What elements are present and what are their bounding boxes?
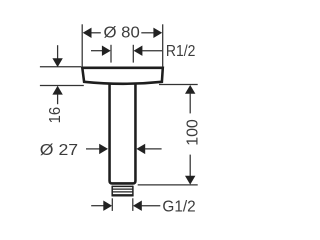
dim Ø27 right leader <box>145 148 162 150</box>
flange (ceiling escutcheon) outline <box>82 68 163 84</box>
dim R1/2 right leader <box>142 50 162 52</box>
dim Ø80 right extension line <box>162 24 164 67</box>
G1/2 thread right side <box>132 186 134 197</box>
G1/2 thread hatch line 2 <box>112 191 133 193</box>
dim G1/2 right leader <box>141 205 160 207</box>
dim Ø27 left leader <box>86 148 100 150</box>
dim R1/2 left leader <box>91 50 102 52</box>
G1/2 thread block top line <box>112 185 133 187</box>
dim 16 upper dimension line <box>57 45 59 58</box>
G1/2 thread hatch line 1 <box>112 188 133 190</box>
svg-text:Ø 27: Ø 27 <box>40 142 78 159</box>
dim R1/2 right extension line <box>132 45 134 63</box>
dim Ø80 left arrow <box>83 28 92 38</box>
dim 100 upper dimension line <box>189 93 191 113</box>
dim 100 down arrow <box>185 176 195 185</box>
svg-text:G1/2: G1/2 <box>162 198 195 215</box>
dim G1/2 left arrow <box>103 201 112 211</box>
dim Ø27 right arrow <box>136 144 145 154</box>
dim 16 lower dimension line <box>57 94 59 104</box>
dim G1/2 right extension line <box>132 198 134 211</box>
dim 16 up arrow <box>52 86 62 95</box>
dim 100 up arrow <box>185 85 195 94</box>
dim Ø80 dimension line right segment <box>141 32 154 34</box>
dim 16 down arrow <box>52 58 62 67</box>
dim R1/2 right arrow <box>134 46 143 56</box>
dim Ø80 right arrow <box>153 28 162 38</box>
G1/2 thread left side <box>111 186 113 197</box>
shower arm tube body <box>110 84 136 184</box>
dim R1/2 left arrow <box>102 46 111 56</box>
dim 16 bottom extension line <box>40 85 84 87</box>
dim G1/2 right arrow <box>133 201 142 211</box>
dim Ø80 dimension line left segment <box>91 32 101 34</box>
dim 100 lower dimension line <box>189 155 191 177</box>
dim G1/2 left extension line <box>111 198 113 211</box>
dim Ø27 left arrow <box>99 144 108 154</box>
dim 100 bottom extension line <box>138 184 198 186</box>
svg-text:R1/2: R1/2 <box>166 43 196 60</box>
dim Ø80 left extension line <box>81 24 83 67</box>
dim R1/2 left extension line <box>110 45 112 63</box>
G1/2 thread bottom bold line <box>112 194 134 196</box>
dim 16 top extension line <box>40 66 81 68</box>
dim 100 top extension line <box>159 83 198 85</box>
svg-text:100: 100 <box>185 119 202 146</box>
dim G1/2 left leader <box>91 205 103 207</box>
svg-text:16: 16 <box>47 107 64 124</box>
svg-text:Ø 80: Ø 80 <box>104 25 140 42</box>
